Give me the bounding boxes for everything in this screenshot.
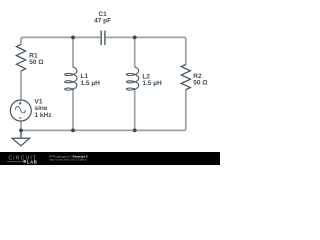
capacitor C1 <box>101 31 105 45</box>
svg-text:1.5 µH: 1.5 µH <box>81 80 101 87</box>
node junction top L2 <box>133 36 137 40</box>
footer bar <box>0 152 220 165</box>
svg-text:http://circuitlab.com/c2q8hyx: http://circuitlab.com/c2q8hyx <box>49 158 87 162</box>
svg-text:1.5 µH: 1.5 µH <box>142 80 162 87</box>
wire top rail right segment <box>106 37 186 64</box>
wire L1 top branch <box>72 37 74 67</box>
resistor R2 <box>181 65 190 90</box>
voltage source V1 <box>10 100 31 121</box>
svg-text:50 Ω: 50 Ω <box>29 59 43 66</box>
CircuitLab logo wordmark <box>7 156 37 165</box>
node junction top L1 <box>71 36 75 40</box>
svg-text:50 Ω: 50 Ω <box>193 80 207 87</box>
svg-text:47 pF: 47 pF <box>94 17 111 24</box>
svg-text:1 kHz: 1 kHz <box>35 112 53 119</box>
wire top rail left segment <box>21 37 100 44</box>
wire bottom rail <box>21 89 186 130</box>
ground <box>12 130 29 145</box>
inductor L2 <box>126 67 138 90</box>
node junction bottom L2 <box>133 129 137 133</box>
wire L2 bottom branch <box>134 89 136 131</box>
node junction bottom L1 <box>71 129 75 133</box>
wire R1 to V1 <box>20 71 22 101</box>
resistor R1 <box>16 44 25 71</box>
node junction bottom V1/ground <box>19 129 23 133</box>
svg-text:LAB: LAB <box>27 159 37 164</box>
wire V1 to bottom junction <box>20 121 22 131</box>
inductor L1 <box>65 67 77 90</box>
wire L2 top branch <box>134 37 136 67</box>
wire L1 bottom branch <box>72 89 74 131</box>
